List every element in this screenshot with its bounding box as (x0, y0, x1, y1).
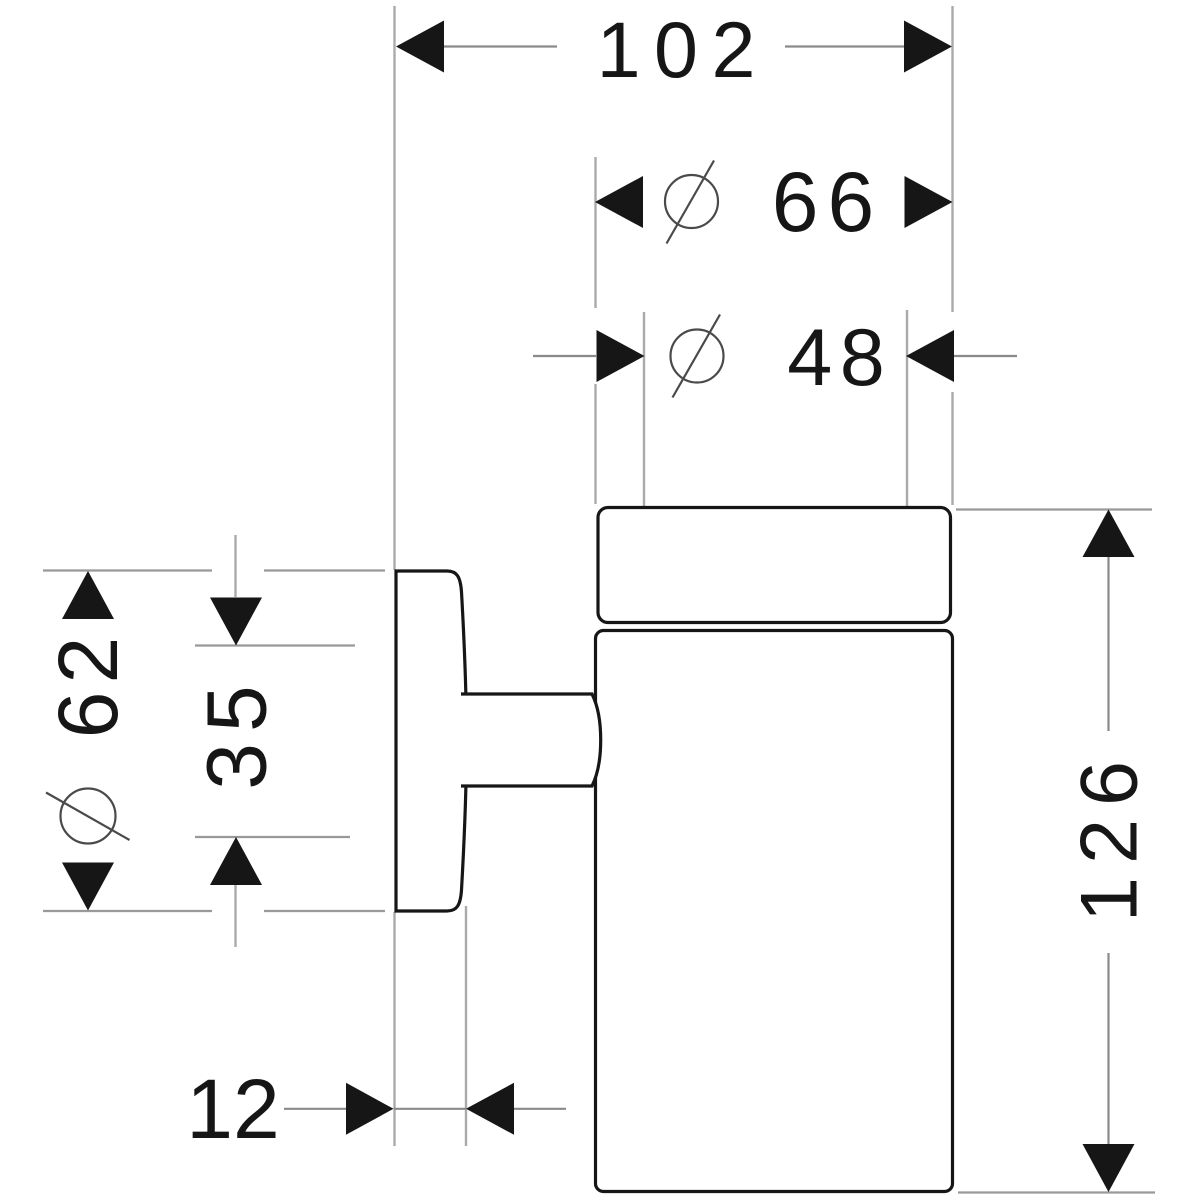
arrowhead 66 right (905, 176, 953, 228)
diameter symbol for 66 (665, 161, 718, 244)
svg-text:102: 102 (597, 5, 769, 94)
dimension line 126 upper segment (1107, 557, 1109, 731)
leader line 48 right (954, 355, 1017, 357)
leader line 48 left (533, 355, 596, 357)
leader line 12 middle (394, 1108, 466, 1110)
svg-text:62: 62 (41, 629, 135, 738)
extension line 66 left upper (594, 157, 596, 308)
arrowhead 62 top (62, 571, 114, 619)
extension line 48 left (643, 312, 645, 506)
arrowhead 12 left (346, 1083, 394, 1135)
arm (support) (461, 694, 601, 786)
holder ring outline (598, 508, 951, 623)
arrowhead 102 right (904, 21, 952, 73)
reference line 62 top left segment (43, 569, 212, 571)
svg-text:12: 12 (186, 1062, 279, 1156)
extension line wall below plate (393, 912, 395, 1146)
reference line 35 top (195, 644, 355, 646)
diameter symbol for 62 (rotated) (46, 789, 130, 844)
arrowhead 12 right (466, 1083, 514, 1135)
cup body outline (596, 631, 953, 1192)
arrowhead 126 bottom (1083, 1144, 1135, 1192)
leader line 102 left (444, 45, 557, 47)
extension line 102/66 right upper (951, 6, 953, 312)
extension line wall (102 left), upper (393, 6, 395, 570)
svg-text:66: 66 (772, 155, 883, 249)
svg-text:35: 35 (190, 674, 284, 789)
extension line 35 top (234, 535, 236, 597)
dimension line 126 lower segment (1107, 953, 1109, 1144)
leader line 12 left (284, 1108, 346, 1110)
arrowhead 48 right (906, 330, 954, 382)
wall plate outline (396, 571, 467, 911)
extension line 48 right (906, 310, 908, 506)
diameter symbol for 48 (671, 315, 724, 398)
svg-text:48: 48 (787, 313, 892, 403)
extension line 12 right (plate face) (465, 906, 467, 1146)
leader line 12 right (514, 1108, 566, 1110)
reference line 62 top right segment (264, 569, 385, 571)
reference line 62 bottom right segment (264, 910, 385, 912)
arrowhead 62 bottom (62, 863, 114, 911)
arrowhead 66 left (595, 176, 643, 228)
reference line 126 bottom (958, 1191, 1155, 1193)
reference line 126 top (956, 508, 1152, 510)
arrowhead 48 left (597, 330, 645, 382)
arrowhead 35 top (210, 598, 262, 646)
extension line 102/66 right lower (951, 392, 953, 505)
extension line 66 left lower (594, 384, 596, 504)
extension line 35 bottom (234, 885, 236, 947)
arrowhead 35 bottom (210, 837, 262, 885)
reference line 62 bottom left segment (43, 910, 212, 912)
arrowhead 126 top (1083, 510, 1135, 558)
reference line 35 bottom (195, 836, 350, 838)
leader line 102 right (785, 45, 904, 47)
svg-text:126: 126 (1065, 748, 1155, 922)
arrowhead 102 left (396, 21, 444, 73)
